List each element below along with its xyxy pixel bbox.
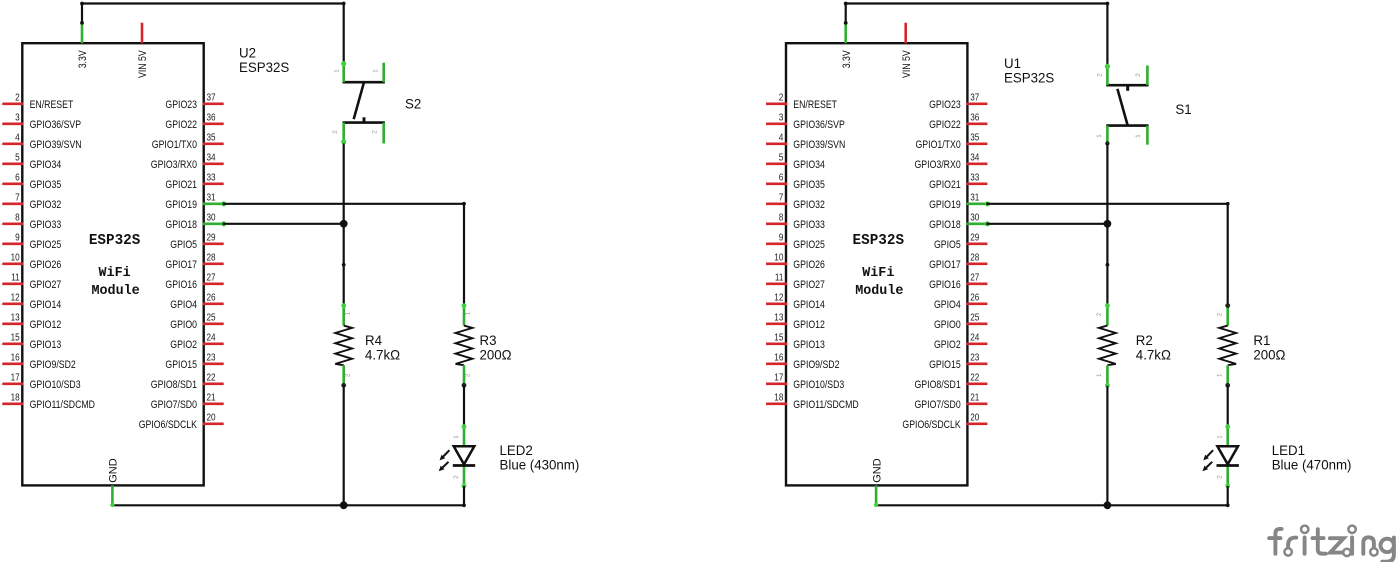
svg-text:GPIO32: GPIO32 (30, 199, 62, 211)
svg-text:GPIO10/SD3: GPIO10/SD3 (793, 379, 844, 391)
switch S1 pin 2b (1135, 66, 1147, 86)
svg-text:17: 17 (774, 373, 783, 384)
svg-text:GPIO5: GPIO5 (934, 239, 961, 251)
svg-text:2: 2 (1096, 312, 1103, 316)
U1 pin GND (connected) (871, 458, 883, 505)
svg-text:7: 7 (779, 193, 784, 204)
svg-text:EN/RESET: EN/RESET (30, 99, 74, 111)
wire LED LED2 to ground rail (462, 486, 466, 507)
U1 pin 35 GPIO1/TX0 (916, 133, 988, 151)
svg-text:GPIO0: GPIO0 (934, 319, 961, 331)
U1 pin 36 GPIO22 (929, 113, 987, 131)
svg-text:GPIO0: GPIO0 (170, 319, 197, 331)
svg-text:26: 26 (207, 293, 216, 304)
U2 pin 27 GPIO16 (165, 273, 223, 291)
wire resistor R4 to ground rail (343, 386, 345, 505)
svg-text:GPIO16: GPIO16 (929, 279, 961, 291)
svg-text:R1200Ω: R1200Ω (1253, 332, 1285, 363)
svg-text:EN/RESET: EN/RESET (793, 99, 837, 111)
svg-text:37: 37 (970, 93, 979, 104)
switch S2 pin 2a (connected) (332, 123, 346, 145)
svg-text:4: 4 (779, 133, 784, 144)
U2 pin 37 GPIO23 (165, 93, 223, 111)
svg-text:28: 28 (970, 253, 979, 264)
U1 pin 29 GPIO5 (934, 233, 987, 251)
U1 pin 24 GPIO2 (934, 333, 987, 351)
U1 pin 30 GPIO18 (connected) (929, 213, 990, 231)
svg-text:2: 2 (15, 93, 20, 104)
U1 pin 37 GPIO23 (929, 93, 987, 111)
svg-text:GPIO6/SDCLK: GPIO6/SDCLK (139, 419, 198, 431)
svg-text:11: 11 (775, 273, 784, 284)
svg-text:GPIO14: GPIO14 (793, 299, 825, 311)
svg-text:10: 10 (774, 253, 783, 264)
U2 pin 16 GPIO9/SD2 (2, 353, 76, 371)
switch S1 lever (1117, 89, 1127, 126)
svg-text:6: 6 (15, 173, 20, 184)
U1 pin 4 GPIO39/SVN (766, 133, 845, 151)
U2 pin 34 GPIO3/RX0 (151, 153, 224, 171)
svg-text:GND: GND (871, 458, 883, 483)
svg-text:15: 15 (11, 333, 20, 344)
switch S2 pin 1a (connected) (333, 61, 346, 82)
wire GPIO18 to node (224, 220, 348, 228)
U1 pin 2 EN/RESET (766, 93, 837, 111)
U2 pin 28 GPIO17 (165, 253, 223, 271)
U1 pin 9 GPIO25 (766, 233, 825, 251)
svg-text:9: 9 (779, 233, 784, 244)
switch S1 bottom bar (1106, 124, 1148, 127)
svg-text:GPIO6/SDCLK: GPIO6/SDCLK (902, 419, 961, 431)
svg-text:GPIO32: GPIO32 (793, 199, 825, 211)
ground rail wire (110, 503, 464, 507)
svg-text:GPIO12: GPIO12 (30, 319, 62, 331)
svg-text:28: 28 (207, 253, 216, 264)
svg-text:ESP32S: ESP32S (853, 232, 905, 249)
svg-text:LED2Blue (430nm): LED2Blue (430nm) (500, 442, 580, 473)
U2 pin 20 GPIO6/SDCLK (139, 413, 224, 431)
svg-text:15: 15 (774, 333, 783, 344)
ESP32 module U2 body (22, 43, 203, 485)
svg-text:26: 26 (970, 293, 979, 304)
svg-text:GPIO11/SDCMD: GPIO11/SDCMD (30, 399, 95, 411)
svg-text:18: 18 (774, 393, 783, 404)
svg-text:S2: S2 (405, 95, 422, 111)
switch S2 bottom bar (343, 121, 385, 124)
svg-text:37: 37 (207, 93, 216, 104)
svg-text:20: 20 (207, 413, 216, 424)
svg-text:22: 22 (970, 373, 979, 384)
svg-text:R24.7kΩ: R24.7kΩ (1136, 332, 1171, 363)
svg-text:9: 9 (15, 233, 20, 244)
svg-text:3.3V: 3.3V (841, 50, 853, 69)
svg-text:1: 1 (1135, 134, 1142, 138)
svg-text:29: 29 (970, 233, 979, 244)
svg-text:GPIO34: GPIO34 (30, 159, 62, 171)
U1 pin 6 GPIO35 (766, 173, 825, 191)
svg-text:2: 2 (1216, 312, 1223, 316)
wire resistor R1 to LED LED1 (1227, 386, 1229, 427)
U2 pin 24 GPIO2 (170, 333, 223, 351)
svg-text:R3200Ω: R3200Ω (480, 332, 512, 363)
svg-text:S1: S1 (1175, 101, 1192, 117)
switch S1 pin 2a (connected) (1097, 64, 1110, 85)
svg-text:2: 2 (1217, 475, 1224, 479)
U2 pin 11 GPIO27 (2, 273, 61, 291)
wire 3.3V to switch S2 (80, 2, 346, 65)
U1 pin 8 GPIO33 (766, 213, 825, 231)
svg-text:GPIO4: GPIO4 (934, 299, 961, 311)
svg-text:GPIO13: GPIO13 (793, 339, 825, 351)
switch S2 top bar (343, 81, 385, 84)
svg-text:GPIO19: GPIO19 (165, 199, 197, 211)
svg-text:30: 30 (207, 213, 216, 224)
U2 pin 2 EN/RESET (2, 93, 73, 111)
U2 pin 7 GPIO32 (2, 193, 61, 211)
svg-text:GPIO22: GPIO22 (165, 119, 197, 131)
svg-text:GPIO7/SD0: GPIO7/SD0 (915, 399, 961, 411)
svg-text:1: 1 (333, 69, 340, 73)
svg-text:5: 5 (779, 153, 784, 164)
svg-text:GPIO23: GPIO23 (929, 99, 961, 111)
svg-text:21: 21 (970, 393, 979, 404)
svg-text:1: 1 (1216, 373, 1223, 377)
svg-text:23: 23 (207, 353, 216, 364)
svg-text:WiFi: WiFi (862, 266, 894, 281)
svg-text:GPIO8/SD1: GPIO8/SD1 (915, 379, 961, 391)
svg-text:GPIO9/SD2: GPIO9/SD2 (30, 359, 76, 371)
switch S1 pin 1b (1135, 126, 1147, 145)
U1 pin 33 GPIO21 (929, 173, 987, 191)
svg-text:1: 1 (344, 311, 351, 315)
svg-text:GPIO35: GPIO35 (793, 179, 825, 191)
U2 pin 12 GPIO14 (2, 293, 61, 311)
svg-text:LED1Blue (470nm): LED1Blue (470nm) (1272, 442, 1352, 473)
svg-text:7: 7 (15, 193, 20, 204)
U1 pin 13 GPIO12 (766, 313, 825, 331)
svg-text:21: 21 (207, 393, 216, 404)
svg-text:GPIO18: GPIO18 (929, 219, 961, 231)
svg-text:U2ESP32S: U2ESP32S (239, 45, 289, 76)
U2 pin 9 GPIO25 (2, 233, 61, 251)
svg-text:27: 27 (207, 273, 216, 284)
wire node to resistor R4 (342, 263, 346, 305)
U2 pin 36 GPIO22 (165, 113, 223, 131)
wire switch S1 to node (1106, 144, 1108, 265)
svg-text:3: 3 (779, 113, 784, 124)
switch S2 lever (354, 82, 364, 119)
U2 pin 3 GPIO36/SVP (2, 113, 81, 131)
U2 pin 22 GPIO8/SD1 (151, 373, 224, 391)
U1 pin 16 GPIO9/SD2 (766, 353, 840, 371)
U2 pin 13 GPIO12 (2, 313, 61, 331)
svg-text:36: 36 (970, 113, 979, 124)
svg-text:R44.7kΩ: R44.7kΩ (365, 332, 400, 363)
U1 pin 20 GPIO6/SDCLK (902, 413, 987, 431)
svg-text:ESP32S: ESP32S (89, 232, 141, 249)
svg-text:34: 34 (207, 153, 216, 164)
U2 pin 15 GPIO13 (2, 333, 61, 351)
svg-text:13: 13 (11, 313, 20, 324)
svg-text:22: 22 (207, 373, 216, 384)
U2 pin 29 GPIO5 (170, 233, 223, 251)
svg-text:2: 2 (1097, 73, 1104, 77)
svg-text:GPIO39/SVN: GPIO39/SVN (30, 139, 82, 151)
svg-text:GPIO21: GPIO21 (929, 179, 961, 191)
svg-text:20: 20 (970, 413, 979, 424)
U2 pin 3.3V (connected) (77, 23, 89, 68)
svg-text:33: 33 (207, 173, 216, 184)
U1 pin VIN 5V (901, 23, 913, 78)
svg-text:2: 2 (779, 93, 784, 104)
svg-text:GPIO23: GPIO23 (165, 99, 197, 111)
svg-text:35: 35 (207, 133, 216, 144)
svg-text:VIN 5V: VIN 5V (137, 50, 149, 78)
junction node switch column / ground rail (340, 501, 348, 509)
svg-text:GPIO3/RX0: GPIO3/RX0 (915, 159, 961, 171)
svg-text:1: 1 (453, 435, 460, 439)
svg-text:3: 3 (15, 113, 20, 124)
svg-text:35: 35 (970, 133, 979, 144)
svg-text:GPIO39/SVN: GPIO39/SVN (793, 139, 845, 151)
U2 pin GND (connected) (108, 458, 120, 505)
U2 pin 5 GPIO34 (2, 153, 61, 171)
U2 pin 33 GPIO21 (165, 173, 223, 191)
svg-text:25: 25 (207, 313, 216, 324)
svg-text:1: 1 (1096, 134, 1103, 138)
U1 pin 10 GPIO26 (766, 253, 825, 271)
svg-text:GPIO36/SVP: GPIO36/SVP (30, 119, 82, 131)
svg-text:GPIO3/RX0: GPIO3/RX0 (151, 159, 197, 171)
junction node switch column / ground rail (1104, 501, 1112, 509)
U1 pin 21 GPIO7/SD0 (915, 393, 988, 411)
svg-text:U1ESP32S: U1ESP32S (1004, 55, 1054, 86)
svg-text:GPIO4: GPIO4 (170, 299, 197, 311)
U1 pin 18 GPIO11/SDCMD (766, 393, 859, 411)
U1 pin 34 GPIO3/RX0 (915, 153, 988, 171)
U1 pin 3 GPIO36/SVP (766, 113, 845, 131)
svg-text:GPIO13: GPIO13 (30, 339, 62, 351)
svg-text:36: 36 (207, 113, 216, 124)
svg-text:GPIO33: GPIO33 (793, 219, 825, 231)
svg-text:GPIO5: GPIO5 (170, 239, 197, 251)
switch S1 top bar (1106, 84, 1148, 87)
wire 3.3V to switch S1 (844, 2, 1110, 65)
U2 pin 4 GPIO39/SVN (2, 133, 81, 151)
U1 pin 27 GPIO16 (929, 273, 987, 291)
U2 pin 18 GPIO11/SDCMD (2, 393, 95, 411)
svg-text:GPIO12: GPIO12 (793, 319, 825, 331)
svg-text:4: 4 (15, 133, 20, 144)
svg-text:31: 31 (207, 193, 216, 204)
svg-text:GPIO14: GPIO14 (30, 299, 62, 311)
resistor R2 symbol (1096, 303, 1116, 387)
U1 pin 11 GPIO27 (766, 273, 825, 291)
svg-text:11: 11 (11, 273, 20, 284)
U1 pin 15 GPIO13 (766, 333, 825, 351)
U1 pin 23 GPIO15 (929, 353, 987, 371)
fritzing watermark logo (1269, 526, 1394, 562)
svg-text:GPIO16: GPIO16 (165, 279, 197, 291)
svg-text:GND: GND (108, 458, 120, 483)
U2 pin 25 GPIO0 (170, 313, 223, 331)
svg-text:GPIO15: GPIO15 (165, 359, 197, 371)
svg-text:VIN 5V: VIN 5V (901, 50, 913, 78)
switch S2 actuator tick (363, 117, 366, 122)
svg-text:GPIO1/TX0: GPIO1/TX0 (152, 139, 197, 151)
U1 pin 12 GPIO14 (766, 293, 825, 311)
U2 pin 17 GPIO10/SD3 (2, 373, 80, 391)
U2 pin VIN 5V (137, 23, 149, 78)
svg-text:GPIO35: GPIO35 (30, 179, 62, 191)
svg-text:GPIO2: GPIO2 (934, 339, 961, 351)
svg-text:GPIO17: GPIO17 (165, 259, 197, 271)
svg-text:30: 30 (970, 213, 979, 224)
U2 pin 26 GPIO4 (170, 293, 223, 311)
svg-text:8: 8 (15, 213, 20, 224)
svg-text:17: 17 (11, 373, 20, 384)
U2 pin 30 GPIO18 (connected) (165, 213, 226, 231)
svg-text:GPIO7/SD0: GPIO7/SD0 (151, 399, 197, 411)
switch S1 pin 1a (connected) (1096, 126, 1110, 146)
svg-text:24: 24 (207, 333, 216, 344)
svg-text:GPIO18: GPIO18 (165, 219, 197, 231)
wire node to resistor R2 (1106, 263, 1110, 305)
svg-text:GPIO22: GPIO22 (929, 119, 961, 131)
svg-text:8: 8 (779, 213, 784, 224)
svg-text:18: 18 (11, 393, 20, 404)
svg-text:1: 1 (465, 311, 472, 315)
ground rail wire (874, 503, 1228, 507)
svg-text:29: 29 (207, 233, 216, 244)
U2 pin 23 GPIO15 (165, 353, 223, 371)
svg-text:GPIO8/SD1: GPIO8/SD1 (151, 379, 197, 391)
wire switch S2 to node (343, 144, 345, 265)
U2 pin 8 GPIO33 (2, 213, 61, 231)
svg-text:GPIO27: GPIO27 (793, 279, 825, 291)
U2 pin 35 GPIO1/TX0 (152, 133, 224, 151)
svg-text:GPIO17: GPIO17 (929, 259, 961, 271)
svg-text:GPIO9/SD2: GPIO9/SD2 (793, 359, 839, 371)
svg-text:33: 33 (970, 173, 979, 184)
U1 pin 17 GPIO10/SD3 (766, 373, 844, 391)
svg-text:Module: Module (855, 284, 903, 299)
svg-text:5: 5 (15, 153, 20, 164)
svg-text:23: 23 (970, 353, 979, 364)
svg-text:31: 31 (970, 193, 979, 204)
wire GPIO19 to resistor R3 (224, 202, 466, 305)
wire resistor R3 to LED LED2 (463, 386, 465, 427)
svg-text:34: 34 (970, 153, 979, 164)
svg-text:GPIO2: GPIO2 (170, 339, 197, 351)
svg-text:2: 2 (453, 475, 460, 479)
U1 pin 5 GPIO34 (766, 153, 825, 171)
svg-text:GPIO34: GPIO34 (793, 159, 825, 171)
U2 pin 10 GPIO26 (2, 253, 61, 271)
U2 pin 21 GPIO7/SD0 (151, 393, 224, 411)
svg-text:27: 27 (970, 273, 979, 284)
resistor R1 symbol (1216, 303, 1236, 387)
wire GPIO18 to node (987, 220, 1111, 228)
svg-text:GPIO10/SD3: GPIO10/SD3 (30, 379, 81, 391)
U2 pin 31 GPIO19 (connected) (165, 193, 226, 211)
svg-text:1: 1 (372, 69, 379, 73)
ESP32 module U1 body (786, 43, 967, 485)
LED LED1 symbol (1202, 424, 1239, 488)
switch S2 pin 2b (372, 123, 384, 144)
LED LED2 symbol (439, 424, 476, 488)
svg-text:6: 6 (779, 173, 784, 184)
svg-text:3.3V: 3.3V (77, 50, 89, 69)
svg-text:24: 24 (970, 333, 979, 344)
svg-text:GPIO33: GPIO33 (30, 219, 62, 231)
svg-text:GPIO25: GPIO25 (30, 239, 62, 251)
svg-text:Module: Module (91, 284, 139, 299)
resistor R3 symbol (456, 303, 473, 387)
svg-text:GPIO21: GPIO21 (165, 179, 197, 191)
svg-text:12: 12 (11, 293, 20, 304)
svg-text:1: 1 (1217, 435, 1224, 439)
svg-text:GPIO26: GPIO26 (793, 259, 825, 271)
svg-text:GPIO27: GPIO27 (30, 279, 62, 291)
U1 pin 3.3V (connected) (841, 23, 853, 68)
svg-text:GPIO36/SVP: GPIO36/SVP (793, 119, 845, 131)
resistor R4 symbol (335, 303, 352, 387)
svg-text:GPIO11/SDCMD: GPIO11/SDCMD (793, 399, 858, 411)
U1 pin 31 GPIO19 (connected) (929, 193, 990, 211)
U1 pin 25 GPIO0 (934, 313, 987, 331)
U1 pin 7 GPIO32 (766, 193, 825, 211)
svg-text:GPIO26: GPIO26 (30, 259, 62, 271)
U1 pin 22 GPIO8/SD1 (915, 373, 988, 391)
svg-text:13: 13 (774, 313, 783, 324)
svg-text:2: 2 (1135, 73, 1142, 77)
wire resistor R2 to ground rail (1106, 386, 1108, 505)
svg-text:16: 16 (774, 353, 783, 364)
svg-text:1: 1 (1096, 373, 1103, 377)
svg-text:2: 2 (332, 130, 339, 134)
svg-text:GPIO15: GPIO15 (929, 359, 961, 371)
svg-text:10: 10 (11, 253, 20, 264)
U2 pin 6 GPIO35 (2, 173, 61, 191)
svg-text:25: 25 (970, 313, 979, 324)
switch S1 actuator tick (1126, 85, 1129, 91)
svg-text:GPIO19: GPIO19 (929, 199, 961, 211)
svg-text:GPIO1/TX0: GPIO1/TX0 (916, 139, 961, 151)
svg-text:WiFi: WiFi (99, 266, 131, 281)
switch S2 pin 1b (372, 63, 383, 82)
svg-text:2: 2 (372, 130, 379, 134)
svg-text:2: 2 (344, 373, 351, 377)
svg-text:12: 12 (774, 293, 783, 304)
U1 pin 26 GPIO4 (934, 293, 987, 311)
U1 pin 28 GPIO17 (929, 253, 987, 271)
svg-text:2: 2 (465, 373, 472, 377)
wire LED LED1 to ground rail (1226, 486, 1230, 507)
svg-text:16: 16 (11, 353, 20, 364)
svg-text:GPIO25: GPIO25 (793, 239, 825, 251)
wire GPIO19 to resistor R1 (987, 202, 1229, 305)
